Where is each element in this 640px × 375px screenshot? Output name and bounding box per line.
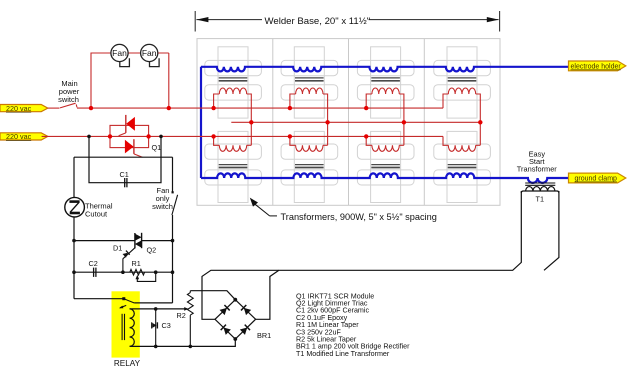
svg-text:Welder Base, 20" x 11½": Welder Base, 20" x 11½" [265,16,371,27]
transformer footprint column 3 [357,47,414,203]
transformer core column 4 [448,78,477,168]
wire 220vac line2 lower bus [42,135,443,137]
wire upper bus col4 rise [443,94,448,108]
junction middle line column 2 [325,120,329,124]
svg-text:Cutout: Cutout [85,210,108,219]
label thermal cutout [85,202,113,219]
wire bridge left AC to T1 [202,191,521,319]
svg-text:C2: C2 [89,259,98,268]
svg-text:Q2: Q2 [147,246,157,255]
triac Q2 [135,233,142,249]
junction R1 wiper return [154,270,158,274]
wire fan only switch vertical [172,157,174,192]
svg-text:R1: R1 [132,259,141,268]
svg-text:switch: switch [58,95,79,104]
svg-text:Fan: Fan [142,48,157,58]
junction gate node [121,270,125,274]
wire gate trigger bus [74,156,173,158]
wire blue bottom bus to ground clamp [201,173,569,182]
svg-text:T1: T1 [536,195,545,204]
transformer core column 1 [219,78,248,168]
relay switch contact [119,297,134,308]
wire C2 R1 rail [74,271,173,273]
junction fan left [89,106,93,110]
wire relay coil bottom rail [130,339,236,346]
junction middle line column 3 [402,120,406,124]
junction fan switch triac [171,239,175,243]
wire thermal to triac Q2 [74,240,135,242]
junction fan switch C2 wire [171,270,175,274]
node 220 vac line 1 flag [0,104,48,113]
svg-text:C1: C1 [120,170,129,179]
transformer primary bottom row column 4 [448,145,480,151]
wire R2 top to bridge plus [190,291,235,300]
capacitor C1 [125,178,127,187]
wire to relay contact [74,298,124,300]
wire lower bus col4 drop [443,136,448,145]
bridge rectifier BR1 [215,300,256,339]
welder base outline [197,39,500,206]
junction bridge top [233,298,237,302]
SCR module Q1 [110,115,149,157]
junction Q1 left terminal [108,134,112,138]
node ground clamp flag [569,173,626,183]
wire blue left vertical [200,67,202,178]
wire 220vac line1 to main power switch [48,107,60,109]
junction upper bus column 1 [211,106,215,110]
wire triac to fan switch vertical [142,240,173,242]
wire middle balance line [231,121,482,123]
thermal cutout [65,197,85,217]
transformer footprint column 2 [281,47,338,203]
transformer core column 3 [371,78,400,168]
main power switch [60,103,77,108]
capacitor C2 [94,268,96,277]
junction upper bus column 3 [364,106,368,110]
wire blue secondary top bus to electrode holder [201,67,569,72]
svg-text:switch: switch [152,202,173,211]
wire thermal cutout down [73,217,75,299]
node electrode holder flag [569,61,626,71]
capacitor C3 [152,309,158,347]
junction C1 left [87,135,91,139]
transformer primary top row column 2 [290,88,328,145]
wire triac gate diagonal [123,248,135,259]
parts list [296,292,410,358]
svg-text:Q1: Q1 [152,143,162,152]
svg-text:220 vac: 220 vac [6,104,32,113]
svg-text:electrode holder: electrode holder [571,64,622,71]
transformer primary bottom row column 3 [366,136,404,151]
junction triac wire [72,239,76,243]
fan only switch [172,191,178,215]
wire main power switch to upper bus [77,107,443,109]
junction lower bus column 2 [288,134,292,138]
transformer core column 2 [295,78,324,168]
wire relay contact to fan switch vertical [134,302,172,304]
junction bridge bottom [233,337,237,341]
junction R2 bottom [189,345,193,349]
transformer primary top row column 4 [448,88,480,145]
junction lower bus column 3 [364,134,368,138]
wire C1 snubber loop [89,136,161,182]
wire fan branch [91,53,169,108]
svg-text:R2: R2 [177,311,186,320]
label transformers callout [250,198,437,222]
transformer footprint column 1 [205,47,262,203]
wire fan switch down [172,215,174,303]
junction C2 wire left [72,270,76,274]
junction middle line column 4 [478,120,482,124]
relay highlight [112,291,140,357]
svg-text:T1 Modified Line Transformer: T1 Modified Line Transformer [296,350,390,358]
potentiometer R1 [130,269,156,281]
fan motor 2 [141,44,160,66]
transformer primary bottom row column 2 [290,136,328,151]
wire relay coil top rail [130,308,185,310]
svg-text:ground clamp: ground clamp [575,176,618,183]
dimension line Welder Base 20 x 11.5 [195,11,499,32]
transformer T1 [521,183,559,193]
junction C1 right [159,135,163,139]
wire bridge right AC to T1 [256,191,559,319]
fan motor 1 [111,44,129,66]
transformer primary bottom row column 1 [214,136,252,151]
relay coil [122,309,134,346]
transformer footprint column 4 [434,47,491,203]
svg-text:C3: C3 [162,321,171,330]
junction lower bus column 1 [211,134,215,138]
junction C3 bottom [154,345,158,349]
svg-text:220 vac: 220 vac [6,132,32,141]
wire gate to C2 node [122,259,124,273]
label fan only switch [152,186,173,211]
label easy start transformer [517,149,558,173]
svg-text:Transformers, 900W, 5" x 5½" s: Transformers, 900W, 5" x 5½" spacing [281,212,437,222]
svg-text:D1: D1 [113,244,122,253]
label main power switch [58,79,80,104]
wire to thermal cutout [73,157,75,197]
junction upper bus column 2 [288,106,292,110]
diode D1 [122,251,129,258]
potentiometer R2 [184,291,193,347]
svg-text:BR1: BR1 [257,331,271,340]
transformer primary top row column 1 [214,88,252,145]
svg-text:RELAY: RELAY [114,359,141,368]
junction C3 top [154,307,158,311]
junction fan right [167,106,171,110]
node 220 vac line 2 flag [0,132,48,141]
svg-text:Fan: Fan [112,48,127,58]
junction Q1 right terminal [146,134,150,138]
junction middle line column 1 [249,120,253,124]
transformer primary top row column 3 [366,88,404,145]
svg-text:Transformer: Transformer [517,164,558,173]
